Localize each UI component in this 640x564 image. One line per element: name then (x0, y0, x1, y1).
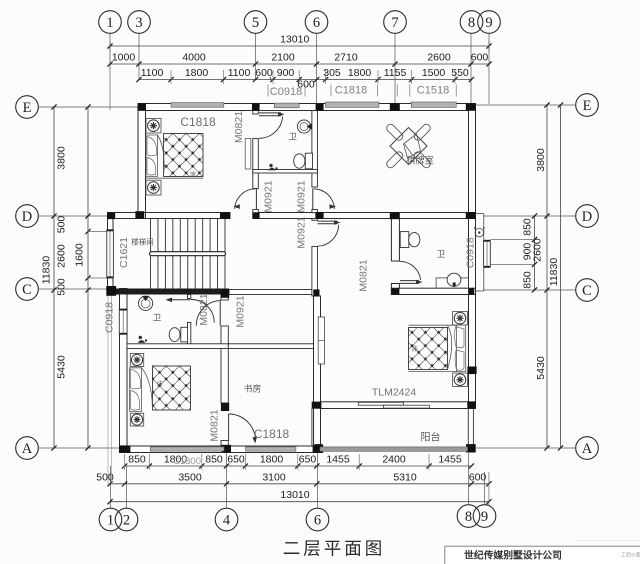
balcony east edge (467, 409, 469, 445)
column axis6/D (315, 212, 323, 219)
svg-text:C0918: C0918 (270, 86, 302, 98)
svg-text:3500: 3500 (178, 471, 202, 483)
svg-text:1100: 1100 (141, 67, 164, 79)
wall axis6 vertical upper (312, 111, 318, 188)
svg-text:1600: 1600 (73, 243, 85, 267)
svg-text:M0921: M0921 (295, 216, 307, 248)
column stair/D (220, 213, 230, 219)
svg-text:1455: 1455 (326, 454, 350, 466)
door M0921 closet (196, 301, 221, 326)
axis leader lines top (109, 33, 111, 110)
door M0821 lower bedroom to study (228, 414, 230, 441)
master bed pillows headboard (457, 325, 466, 372)
svg-text:1800: 1800 (185, 67, 209, 79)
column axis7/E (390, 103, 400, 111)
svg-text:550: 550 (451, 67, 469, 79)
column east bed (467, 367, 476, 375)
axis leader lines left (38, 106, 139, 108)
svg-text:3800: 3800 (55, 146, 67, 170)
master bath sink counter (436, 278, 468, 288)
column axis3/D (135, 211, 144, 219)
bed lower pillows (130, 368, 142, 412)
window C0918 top bath (grey) (274, 103, 299, 108)
svg-text:8: 8 (468, 15, 475, 31)
svg-text:D: D (22, 209, 32, 225)
svg-text:C1518: C1518 (417, 85, 449, 97)
balcony rail (grey) (320, 447, 468, 451)
master bath shower symbol (475, 228, 483, 236)
axis bubbles left column (16, 96, 39, 119)
column bath west/C (391, 288, 399, 294)
axis leader lines right (476, 104, 576, 106)
svg-text:2600: 2600 (531, 238, 543, 262)
exterior wall A (bottom) (120, 446, 323, 453)
svg-text:8: 8 (465, 509, 472, 525)
svg-text:TLM2424: TLM2424 (372, 387, 417, 399)
left extension lines (88, 231, 108, 233)
bottom bathroom east wall (188, 295, 191, 299)
exterior wall west lower (120, 289, 128, 453)
svg-text:二层平面图: 二层平面图 (283, 539, 386, 559)
master bath toilet (400, 232, 409, 248)
svg-text:600: 600 (471, 52, 489, 64)
svg-text:C1800: C1800 (173, 456, 201, 467)
svg-text:11830: 11830 (40, 256, 52, 285)
window C1518 games room (grey) (411, 102, 456, 107)
svg-text:650: 650 (299, 454, 317, 466)
bed top-left foot line (146, 177, 203, 179)
svg-text:2600: 2600 (55, 244, 67, 268)
wall on axis C over closet (229, 290, 314, 295)
top bathroom sink (297, 120, 310, 133)
right dimension line 11830 (560, 105, 562, 448)
svg-text:850: 850 (521, 271, 533, 289)
svg-text:1: 1 (106, 15, 113, 31)
axis bubbles bottom row (99, 508, 122, 531)
svg-text:1155: 1155 (384, 67, 407, 79)
svg-text:850: 850 (521, 218, 533, 236)
sliding door TLM2424 (358, 402, 403, 405)
title block box (445, 546, 640, 564)
svg-text:2600: 2600 (427, 52, 451, 64)
svg-text:1800: 1800 (348, 67, 372, 79)
svg-text:,: , (269, 70, 272, 82)
svg-text:9: 9 (481, 509, 488, 525)
master bed mattress hatch (409, 328, 448, 370)
svg-text:C1818: C1818 (180, 115, 216, 129)
door M0921 hall to master bedroom (318, 220, 338, 222)
east bay outer line (483, 214, 485, 292)
door M0821 master bathroom (400, 280, 419, 282)
svg-text:5310: 5310 (393, 471, 417, 483)
bed top-left mattress hatch (164, 134, 204, 177)
svg-text:13010: 13010 (280, 489, 309, 501)
radiator top-left bedroom (245, 139, 251, 170)
svg-text:E: E (23, 100, 32, 116)
wall axis6 vertical D-C (312, 219, 318, 221)
svg-text:C: C (22, 282, 32, 298)
window caps master bath bay (484, 240, 491, 242)
window C0918 lower west (119, 310, 127, 334)
svg-text:900: 900 (277, 67, 295, 79)
door M0821 bottom bathroom (168, 299, 190, 301)
svg-text:1000: 1000 (112, 52, 136, 64)
column west/A (119, 445, 130, 452)
stairwell west bump wall (108, 213, 114, 295)
svg-text:13010: 13010 (280, 34, 309, 46)
svg-text:工西火租: 工西火租 (621, 552, 640, 559)
left dimension line outer 11830 (53, 107, 55, 448)
svg-text:4000: 4000 (182, 52, 206, 64)
master bedroom south wall (314, 402, 476, 409)
right dimension line 3800 5430 (546, 105, 548, 448)
top bathroom south wall (253, 170, 318, 174)
svg-text:3800: 3800 (535, 148, 547, 172)
column divider mid (221, 403, 229, 411)
column balcony west (314, 444, 322, 452)
svg-text:1455: 1455 (438, 454, 462, 466)
bed lower mattress hatch (153, 366, 191, 410)
svg-text:500: 500 (55, 278, 67, 296)
balcony west edge (311, 409, 313, 447)
left dimension line inner: 3800 500 1600 500 5430 (87, 107, 89, 448)
svg-text:卫: 卫 (153, 313, 162, 323)
svg-text:3100: 3100 (262, 471, 286, 483)
column axis5/E (252, 103, 260, 111)
bottom dimension line 13010 (110, 501, 489, 503)
column divider/A (222, 445, 232, 453)
svg-text:床: 床 (190, 171, 196, 179)
mahjong chairs (413, 150, 432, 169)
svg-text:3: 3 (135, 15, 142, 31)
column divider/C (221, 289, 229, 297)
svg-text:床: 床 (157, 380, 163, 388)
svg-text:A: A (582, 441, 593, 457)
nightstand lower 2 (130, 413, 143, 426)
bottom bathroom toilet (181, 327, 188, 342)
bottom dimension row 1: 850 1800 850 650 1800 650 1455 2400 1455 (125, 465, 472, 467)
bottom bathroom south wall (127, 344, 228, 349)
window A wall study C1818 (grey) (246, 447, 296, 451)
svg-text:1: 1 (107, 513, 114, 529)
svg-text:9: 9 (485, 15, 492, 31)
bottom bathroom floor drain (139, 336, 142, 339)
svg-text:书房: 书房 (244, 383, 262, 394)
exterior wall E (top) (138, 104, 476, 111)
column south wall west (312, 402, 322, 409)
svg-text:2: 2 (123, 513, 130, 529)
svg-text:M0821: M0821 (357, 259, 369, 291)
master bathroom south wall (391, 288, 475, 294)
extension lines through C0918 label (107, 283, 109, 484)
bottom extension lines (124, 454, 126, 470)
faint watermark line (575, 540, 640, 542)
svg-text:C1621: C1621 (118, 237, 130, 268)
svg-text:世纪传媒别墅设计公司: 世纪传媒别墅设计公司 (464, 549, 562, 562)
window C1621 stairwell west (107, 230, 114, 278)
svg-text:2100: 2100 (271, 52, 295, 64)
wall axis5 vertical (bedroom/bath) (253, 111, 258, 115)
svg-text:A: A (22, 441, 33, 457)
svg-text:11830: 11830 (548, 258, 560, 287)
svg-text:床: 床 (412, 345, 418, 353)
bottom bathroom sink (139, 296, 153, 310)
axis leader lines bottom (110, 466, 112, 508)
door M0921 hall to games room (314, 189, 335, 209)
svg-text:E: E (583, 98, 592, 114)
mahjong table (390, 128, 427, 165)
column south wall east (467, 401, 476, 408)
svg-text:6: 6 (313, 15, 320, 31)
exterior wall east (469, 104, 476, 409)
top bathroom toilet (305, 153, 312, 169)
svg-text:C1818: C1818 (335, 85, 367, 97)
svg-text:650: 650 (227, 454, 245, 466)
right dimension line 850 900 850 (534, 216, 536, 290)
svg-text:850: 850 (205, 454, 223, 466)
column axis6/E (316, 103, 324, 111)
column axis1/C (106, 286, 116, 296)
svg-text:阳台: 阳台 (421, 431, 441, 444)
column axis8/D (466, 212, 476, 219)
svg-text:M0921: M0921 (262, 180, 274, 212)
svg-text:D: D (582, 209, 592, 225)
svg-text:5430: 5430 (535, 356, 547, 380)
top dimension row 3: 1100 1800 1100 600 900 600 305 1800 1155 1500 550 (139, 79, 471, 81)
axis bubbles right column (576, 94, 599, 117)
window caps lower west (119, 309, 127, 311)
column east/C (468, 288, 474, 294)
svg-text:楼梯间: 楼梯间 (131, 237, 154, 247)
master bathroom west wall (391, 219, 399, 262)
window C1818 bedroom top (grey) (171, 103, 224, 108)
wall on axis D (108, 213, 231, 219)
svg-text:M0821: M0821 (198, 293, 210, 325)
window C0918 master bath bay (484, 241, 491, 267)
column axis3/E (138, 103, 146, 111)
master wardrobe west wall (318, 317, 324, 364)
axis bubbles top row (99, 11, 122, 34)
svg-text:600: 600 (469, 471, 487, 483)
svg-text:2710: 2710 (334, 52, 358, 64)
right extension lines (491, 239, 535, 241)
svg-text:1500: 1500 (422, 67, 446, 79)
column axis8/E (466, 103, 476, 111)
svg-text:C0918: C0918 (104, 302, 116, 333)
svg-text:C0918: C0918 (464, 237, 476, 268)
svg-text:M0921: M0921 (234, 295, 246, 327)
column axis6/A (313, 445, 324, 453)
study east wall (314, 296, 321, 446)
wall on axis C solid part (108, 289, 230, 295)
svg-text:C1818: C1818 (254, 427, 290, 441)
svg-text:1100: 1100 (228, 67, 251, 79)
window A wall bedroom (grey) (150, 447, 224, 451)
closet south wall (228, 344, 313, 349)
door M0821 top bath: leaf+arc+arrow (259, 112, 281, 114)
svg-text:6: 6 (314, 513, 321, 529)
master nightstand 2 (453, 373, 468, 386)
svg-text:5: 5 (252, 15, 259, 31)
svg-text:1800: 1800 (260, 454, 284, 466)
svg-text:C: C (582, 283, 592, 299)
top extension lines row3 (170, 70, 172, 84)
column axis6/C (313, 289, 319, 296)
svg-text:7: 7 (391, 15, 398, 31)
svg-text:卫: 卫 (288, 132, 297, 142)
stair handrail (150, 252, 226, 256)
column balcony east (466, 444, 476, 452)
top dimension line 13010 (110, 45, 489, 47)
bed top-left pillows (146, 135, 158, 177)
svg-text:卫: 卫 (437, 249, 446, 259)
bottom dimension row 2: 500 3500 3100 5310 600 (110, 483, 489, 485)
svg-text:850: 850 (128, 454, 146, 466)
svg-text:M0821: M0821 (208, 409, 220, 441)
svg-text:5430: 5430 (55, 355, 67, 379)
bedroom/study divider wall (221, 295, 228, 301)
master nightstand 1 (453, 312, 468, 325)
column axis5/D (253, 213, 260, 219)
column axis1/D (107, 213, 115, 220)
svg-text:4: 4 (223, 513, 231, 529)
window C1818 games room (grey) (326, 102, 379, 107)
column axis7/D (390, 212, 400, 219)
svg-text:2400: 2400 (382, 454, 406, 466)
svg-text:M0921: M0921 (295, 180, 307, 212)
svg-text:500: 500 (55, 216, 67, 234)
nightstand top-left 1 (146, 118, 161, 133)
nightstand lower 1 (130, 353, 143, 366)
exterior wall west upper (axis3) (138, 104, 146, 219)
top bathroom floor drain (269, 164, 272, 167)
nightstand top-left 2 (146, 180, 161, 195)
door M0921 hall to bedroom west (235, 189, 256, 209)
svg-text:M0821: M0821 (233, 111, 245, 143)
top dimension row 2: 1000 4000 2100 2710 2600 600 (110, 63, 489, 65)
stair treads (150, 219, 152, 289)
